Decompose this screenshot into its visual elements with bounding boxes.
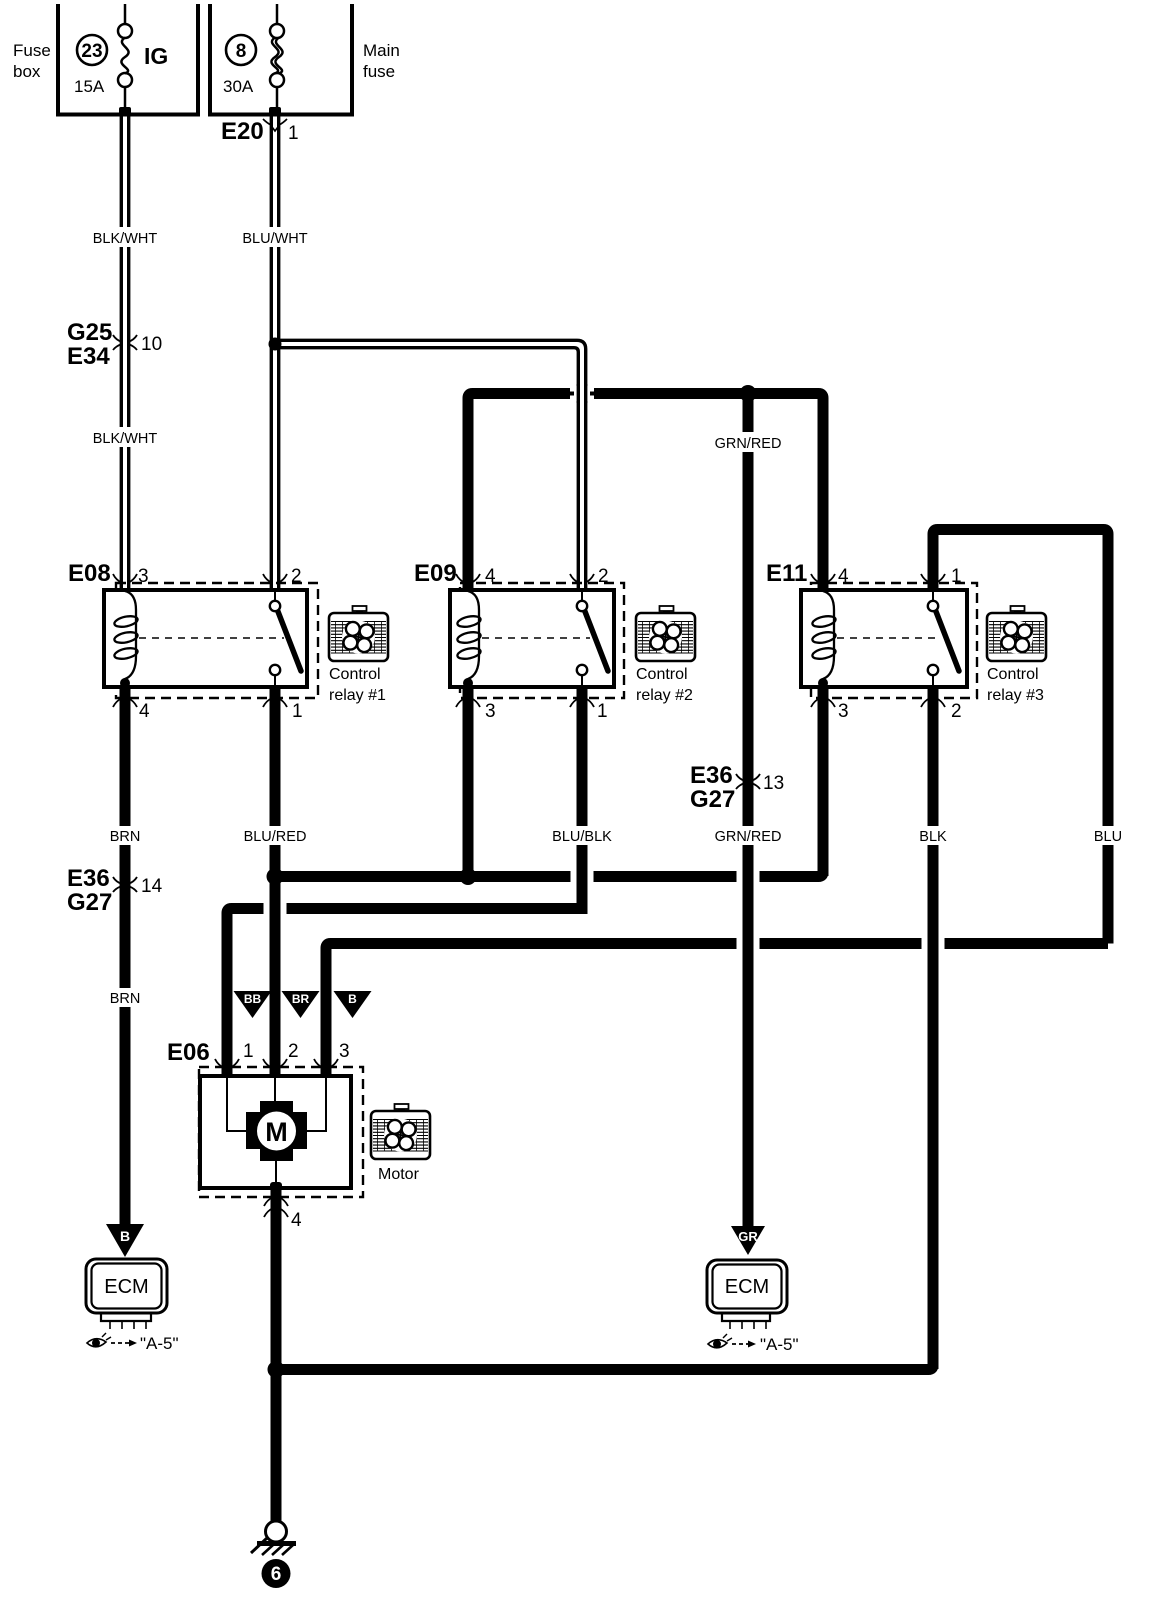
svg-text:2: 2 — [951, 701, 962, 722]
wire label BRN lower — [103, 988, 147, 1007]
svg-text:2: 2 — [598, 566, 609, 587]
page link triangle BB — [234, 991, 272, 1018]
svg-text:30A: 30A — [223, 77, 254, 96]
main fuse label — [363, 41, 400, 81]
motor E06 dashed connector box — [199, 1067, 363, 1197]
svg-text:1: 1 — [288, 123, 299, 144]
wire BLU/RED from E08 pin 1 to E06 pin 2 — [270, 687, 281, 1078]
svg-text:ECM: ECM — [104, 1276, 148, 1298]
wire bus H2: E06 pin1 riser to BLU/BLK — [227, 909, 588, 1079]
svg-text:4: 4 — [291, 1210, 302, 1231]
fuse box 2 terminal — [269, 107, 281, 115]
fuse box label — [13, 41, 51, 81]
connector G25/E34 inline mark — [113, 335, 137, 350]
svg-text:B: B — [348, 992, 357, 1006]
wire thick relay coil bus y=393 from E09 pin4 to E11 pin4 — [468, 394, 823, 591]
motor internal wire pin1 — [227, 1076, 248, 1131]
relay E09 coil terminal blob — [463, 678, 473, 688]
junction dot on coil bus at GRN/RED — [740, 385, 757, 402]
svg-text:E34: E34 — [67, 343, 110, 370]
relay E09 pin 2 mark — [570, 574, 594, 583]
svg-text:B: B — [120, 1228, 130, 1244]
svg-text:ECM: ECM — [725, 1276, 769, 1298]
svg-text:6: 6 — [271, 1564, 282, 1585]
ECM left view reference eye and A-5 — [87, 1333, 179, 1353]
svg-text:E36: E36 — [690, 762, 733, 789]
svg-text:1: 1 — [951, 566, 962, 587]
svg-text:Control: Control — [636, 666, 688, 683]
ECM left connector — [101, 1313, 151, 1329]
svg-text:IG: IG — [144, 43, 168, 69]
wire BLK/WHT double line from fuse box to E08 pin 3 — [121, 116, 128, 590]
svg-text:E06: E06 — [167, 1039, 210, 1066]
svg-text:3: 3 — [838, 701, 849, 722]
wire E11 pin1 feed: up and over to BLU riser — [933, 530, 1108, 944]
connector E20 pin mark — [263, 119, 287, 131]
svg-text:BB: BB — [244, 992, 262, 1006]
motor internal wire pin4 — [275, 1155, 277, 1188]
relay E09 pin 4 mark — [456, 574, 480, 583]
svg-text:Fuse: Fuse — [13, 41, 51, 60]
connector E36/G27 inline mark pin 13 — [736, 774, 760, 789]
relay E11 pin 4 mark — [811, 574, 835, 583]
relay E11 pin 2 mark — [921, 698, 945, 707]
relay E11 dashed connector box — [811, 583, 977, 698]
relay E08 coil — [113, 591, 138, 686]
svg-text:GRN/RED: GRN/RED — [715, 436, 782, 452]
wire label BLU/WHT — [242, 227, 307, 247]
svg-text:BLK/WHT: BLK/WHT — [93, 431, 158, 447]
fuse F8 symbol (double wave) — [270, 4, 284, 110]
arrow GR to ECM — [731, 1226, 765, 1255]
relay E08 dashed link line — [139, 637, 284, 639]
arrow B to ECM — [106, 1224, 144, 1257]
fuse F23 symbol — [118, 4, 132, 110]
svg-text:2: 2 — [291, 566, 302, 587]
svg-text:relay #3: relay #3 — [987, 687, 1044, 704]
relay E09 pin 3 mark — [456, 698, 480, 707]
crossing nubs — [569, 392, 574, 396]
svg-text:1: 1 — [597, 701, 608, 722]
wire GRN/RED drop from coil bus — [743, 393, 754, 1228]
wire BLU/WHT double line from E20 down to E08 pin 2 — [271, 116, 278, 590]
relay E09 dashed connector box — [460, 583, 624, 698]
control relay #3 fan icon — [987, 606, 1046, 661]
svg-text:M: M — [265, 1117, 288, 1147]
relay E11 body — [801, 590, 967, 687]
crossover break H1 x GRN/RED — [737, 867, 760, 886]
motor internal wire pin3 — [305, 1076, 326, 1131]
wire double line horizontal to E09 pin 2 — [275, 340, 586, 590]
ECM right connector — [722, 1313, 770, 1329]
svg-text:13: 13 — [763, 773, 784, 794]
relay E09 dashed link line — [482, 637, 590, 639]
ECM right box — [707, 1260, 787, 1313]
relay E09 coil — [456, 591, 481, 686]
svg-text:Control: Control — [329, 666, 381, 683]
svg-text:8: 8 — [236, 41, 247, 62]
junction dot BLU/RED at H1 — [267, 868, 284, 885]
wire bus H3: E06 pin3 riser to BLU — [326, 944, 1108, 1079]
svg-text:3: 3 — [339, 1041, 350, 1062]
relay E09 switch — [577, 590, 608, 687]
svg-text:BLU/RED: BLU/RED — [244, 829, 307, 845]
crossover break H1 x BLU/BLK — [571, 867, 594, 886]
control relay #1 label — [329, 666, 386, 704]
svg-text:1: 1 — [243, 1041, 254, 1062]
svg-text:3: 3 — [138, 566, 149, 587]
wire BLU/BLK from E09 pin 1 — [577, 687, 588, 914]
motor fan icon — [371, 1104, 430, 1159]
E06 pin 2 mark — [263, 1059, 287, 1068]
relay E11 pin 1 mark — [921, 574, 945, 583]
page link triangle B — [334, 991, 372, 1018]
ground symbol — [251, 1521, 296, 1555]
wire label BLK/WHT lower — [93, 427, 158, 447]
relay E08 pin 3 mark — [113, 574, 137, 583]
svg-text:"A-5": "A-5" — [140, 1334, 179, 1353]
relay E08 pin 4 mark — [113, 698, 137, 707]
svg-text:4: 4 — [139, 701, 150, 722]
wire bus H4: BLK to ground run — [276, 1350, 933, 1370]
svg-text:BLU/BLK: BLU/BLK — [552, 829, 612, 845]
relay E08 dashed connector box — [116, 583, 318, 698]
svg-text:2: 2 — [288, 1041, 299, 1062]
fuse 23 circle — [77, 35, 107, 65]
svg-text:G27: G27 — [690, 786, 735, 813]
E06 pin 3 mark — [314, 1059, 338, 1068]
svg-text:4: 4 — [485, 566, 496, 587]
motor body box — [200, 1076, 351, 1188]
fuse 8 circle — [226, 35, 256, 65]
wire label BLU/BLK — [550, 826, 614, 845]
page link triangle BR — [282, 991, 320, 1018]
wire bus H1: E11 pin3 to BLU/RED — [275, 687, 823, 877]
svg-text:Control: Control — [987, 666, 1039, 683]
fuse box 2 (main fuse box) outline — [210, 4, 352, 115]
ground id circle 6 — [262, 1559, 291, 1588]
E06 pin 4 terminal blob — [270, 1182, 282, 1191]
svg-text:15A: 15A — [74, 77, 105, 96]
svg-text:GR: GR — [738, 1229, 758, 1244]
wire label GRN/RED upper — [715, 432, 782, 452]
wire ground run from motor pin 4 — [271, 1188, 282, 1522]
E06 pin 1 mark — [215, 1059, 239, 1068]
crossover break H3 x BLK — [922, 934, 945, 953]
wire label GRN/RED lower — [715, 826, 782, 845]
relay E08 switch — [270, 590, 301, 687]
svg-text:G25: G25 — [67, 319, 112, 346]
control relay #3 label — [987, 666, 1044, 704]
relay E08 coil terminal blob — [120, 678, 130, 688]
ECM right view reference eye and A-5 — [708, 1334, 799, 1354]
wire label BLK/WHT — [93, 227, 158, 247]
relay E11 dashed link line — [837, 637, 941, 639]
crossover break H2 x BLU/RED — [264, 899, 287, 918]
motor internal wire pin2 — [274, 1076, 276, 1105]
control relay #2 fan icon — [636, 606, 695, 661]
relay E09 body — [450, 590, 614, 687]
relay E08 pin 1 mark — [263, 698, 287, 707]
relay E11 switch — [928, 590, 959, 687]
svg-text:10: 10 — [141, 334, 162, 355]
relay E11 coil — [811, 591, 836, 686]
redraw double line over break — [578, 384, 585, 403]
svg-text:Main: Main — [363, 41, 400, 60]
svg-text:14: 14 — [141, 876, 163, 897]
connector E36/G27 inline mark pin 14 — [113, 877, 137, 892]
wire BRN from E08 pin 4 to ECM arrow — [120, 687, 131, 1228]
junction dot E09 pin3 at H1 — [460, 868, 477, 885]
control relay #1 fan icon — [329, 606, 388, 661]
svg-text:E08: E08 — [68, 560, 111, 587]
fuse box 1 outline — [58, 4, 198, 115]
svg-text:E20: E20 — [221, 118, 264, 145]
svg-text:4: 4 — [838, 566, 849, 587]
junction dot ground run at H4 — [268, 1361, 285, 1378]
white break where BLU/WHT crosses coil bus — [570, 386, 594, 401]
relay E08 pin 2 mark — [263, 574, 287, 583]
svg-text:fuse: fuse — [363, 62, 395, 81]
svg-text:E09: E09 — [414, 560, 457, 587]
svg-text:BR: BR — [292, 992, 310, 1006]
svg-text:G27: G27 — [67, 889, 112, 916]
svg-text:E11: E11 — [766, 560, 807, 587]
wire label BLU — [1088, 826, 1128, 845]
svg-text:box: box — [13, 62, 41, 81]
svg-text:BRN: BRN — [110, 991, 141, 1007]
svg-text:GRN/RED: GRN/RED — [715, 829, 782, 845]
svg-text:1: 1 — [292, 701, 303, 722]
relay E09 pin 1 mark — [570, 698, 594, 707]
junction on BLU/WHT at relay coil feed — [269, 338, 282, 351]
relay E11 coil terminal blob — [818, 678, 828, 688]
svg-text:relay #1: relay #1 — [329, 687, 386, 704]
ECM left box — [86, 1259, 167, 1313]
relay E11 pin 3 mark — [811, 698, 835, 707]
svg-text:BLU/WHT: BLU/WHT — [242, 231, 307, 247]
svg-text:E36: E36 — [67, 865, 110, 892]
crossover break H3 x GRN/RED — [737, 934, 760, 953]
wire E11 pin 3 drop — [818, 687, 829, 876]
svg-text:BLK/WHT: BLK/WHT — [93, 231, 158, 247]
svg-text:23: 23 — [81, 41, 102, 62]
svg-text:BLK: BLK — [919, 829, 947, 845]
svg-text:"A-5": "A-5" — [760, 1335, 799, 1354]
wire E09 pin 3 drop — [463, 687, 474, 876]
wire BLK from E11 pin 2 down to bottom run — [928, 687, 939, 1369]
svg-text:BRN: BRN — [110, 829, 141, 845]
svg-text:relay #2: relay #2 — [636, 687, 693, 704]
wire label BRN — [103, 826, 147, 845]
motor M symbol — [246, 1101, 307, 1161]
wire label BLK — [913, 826, 953, 845]
E06 pin 4 mark — [264, 1197, 288, 1206]
svg-text:Motor: Motor — [378, 1166, 420, 1183]
control relay #2 label — [636, 666, 693, 704]
wire label BLU/RED — [243, 826, 307, 845]
fuse box 1 terminal — [119, 107, 131, 115]
svg-text:BLU: BLU — [1094, 829, 1122, 845]
relay E08 body — [104, 590, 307, 687]
svg-text:3: 3 — [485, 701, 496, 722]
